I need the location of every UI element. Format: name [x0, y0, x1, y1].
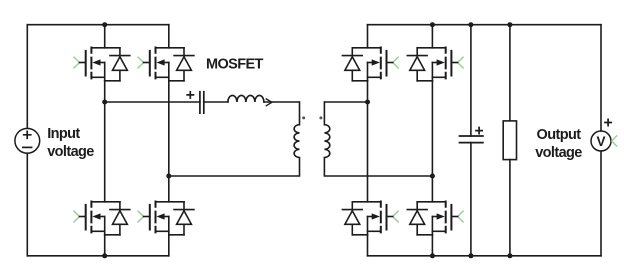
- node A junction: [102, 100, 107, 105]
- node junction bottom rail / Q3 source: [102, 253, 107, 258]
- capacitor C2 plates: [460, 136, 483, 143]
- wire Q3 drain lead from node A: [104, 102, 106, 202]
- capacitor C1 (series DC-blocking): [200, 92, 204, 114]
- resistor R1 bottom lead: [509, 160, 511, 256]
- wire Q1 source lead to node A: [104, 81, 106, 102]
- wire secondary top to node C: [325, 101, 368, 103]
- voltage source V1 input: [15, 128, 40, 153]
- transistor Q8 (right bridge, leg D low side, mirrored): [407, 202, 463, 235]
- resistor R1 body: [503, 121, 516, 160]
- wire Q7 drain lead from node C: [367, 102, 369, 202]
- transistor Q4 (left bridge, leg B low side): [138, 202, 194, 235]
- wire capacitor to inductor: [204, 101, 228, 103]
- wire input source to bottom rail: [26, 153, 28, 256]
- node junction top rail / Q6 drain: [430, 22, 435, 27]
- wire Q5 source lead to node C: [367, 81, 369, 102]
- wire Q4 source lead to bottom rail: [168, 235, 170, 256]
- node B junction: [166, 174, 171, 179]
- wire Q1 drain lead: [104, 25, 106, 48]
- wire left rail from top rail down to input source: [26, 25, 28, 129]
- node junction top rail / C2: [468, 22, 473, 27]
- node junction top rail / R1: [507, 22, 512, 27]
- node junction top rail / Q1 drain: [102, 22, 107, 27]
- capacitor C2 bottom lead: [470, 143, 472, 256]
- wire Q5 drain lead from top rail corner: [367, 25, 369, 48]
- transistor Q2 (left bridge, leg B high side): [138, 48, 194, 81]
- wire Q7 source lead to bottom rail: [367, 235, 369, 256]
- wire bottom rail left bridge: [27, 255, 169, 257]
- wire node A to DC-blocking capacitor: [105, 101, 200, 103]
- C2 plus sign: [476, 128, 482, 134]
- node junction bottom rail / C2: [468, 253, 473, 258]
- svg-text:voltage: voltage: [47, 144, 94, 160]
- transistor Q5 (right bridge, leg C high side, mirrored): [342, 48, 398, 81]
- node C junction: [365, 100, 370, 105]
- V1 minus sign: [23, 146, 32, 148]
- resistor R1 load top lead: [509, 25, 511, 121]
- svg-text:V: V: [596, 134, 605, 149]
- wire Q6 drain lead: [431, 25, 433, 48]
- V1 plus sign: [24, 131, 31, 138]
- wire Q6 source lead down through node D to Q8 drain: [431, 81, 433, 202]
- transistor Q6 (right bridge, leg D high side, mirrored): [407, 48, 463, 81]
- transformer T1 secondary winding: [324, 102, 432, 176]
- svg-text:Output: Output: [537, 127, 582, 143]
- transformer T1 primary winding: [169, 102, 300, 176]
- wire top rail right bridge: [368, 24, 602, 26]
- voltmeter VM1 circle: [591, 131, 611, 151]
- svg-text:Input: Input: [47, 126, 80, 142]
- wire Q8 source lead to bottom rail: [431, 235, 433, 256]
- wire bottom rail right bridge: [368, 255, 602, 257]
- node junction bottom rail / Q8 source: [430, 253, 435, 258]
- wire Q2 drain lead from top rail corner: [168, 25, 170, 48]
- T1 secondary polarity dot: [319, 116, 322, 119]
- svg-text:MOSFET: MOSFET: [206, 57, 264, 73]
- inductor L1 (series): [228, 95, 264, 102]
- transistor Q7 (right bridge, leg C low side, mirrored): [342, 202, 398, 235]
- wire voltmeter down to bottom rail: [600, 151, 602, 256]
- svg-text:voltage: voltage: [535, 145, 582, 161]
- transistor Q1 (left bridge, leg A high side): [74, 48, 130, 81]
- capacitor C2 output filter top lead: [470, 25, 472, 136]
- C1 plus sign: [187, 92, 193, 98]
- wire top rail left bridge: [27, 24, 169, 26]
- T1 primary polarity dot: [302, 116, 305, 119]
- node junction bottom rail / R1: [507, 253, 512, 258]
- wire inductor to transformer primary: [264, 101, 299, 103]
- voltmeter plus sign: [605, 119, 611, 125]
- node D junction: [430, 174, 435, 179]
- voltmeter green probe arrow: [612, 136, 617, 146]
- wire Q2 source lead down through node B to Q4 drain: [168, 81, 170, 202]
- current direction arrow on inductor wire: [266, 99, 272, 106]
- wire Q3 source lead to bottom rail: [104, 235, 106, 256]
- wire top rail corner down to voltmeter: [600, 25, 602, 131]
- transistor Q3 (left bridge, leg A low side): [74, 202, 130, 235]
